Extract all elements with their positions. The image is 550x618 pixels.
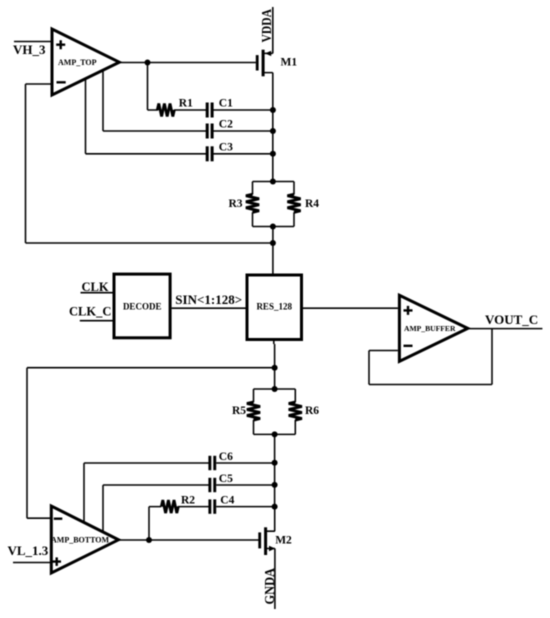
svg-text:C1: C1 [219,98,233,110]
svg-text:AMP_BOTTOM: AMP_BOTTOM [51,536,110,545]
svg-text:R5: R5 [232,405,246,417]
svg-text:M1: M1 [281,57,298,69]
svg-text:C3: C3 [219,142,233,154]
svg-text:CLK: CLK [82,280,109,294]
svg-text:SIN<1:128>: SIN<1:128> [175,292,242,307]
svg-text:CLK_C: CLK_C [69,305,111,319]
svg-text:VH_3: VH_3 [13,42,46,57]
svg-text:R1: R1 [179,98,193,110]
svg-text:C6: C6 [219,451,233,463]
svg-text:VDDA: VDDA [260,8,275,42]
svg-text:AMP_TOP: AMP_TOP [58,58,97,67]
svg-text:M2: M2 [275,535,292,547]
svg-text:C5: C5 [219,473,233,485]
svg-text:R6: R6 [305,405,319,417]
svg-text:R2: R2 [181,495,195,507]
svg-text:RES_128: RES_128 [256,302,292,312]
svg-text:AMP_BUFFER: AMP_BUFFER [404,324,456,333]
svg-text:VOUT_C: VOUT_C [485,312,538,327]
svg-text:VL_1.3: VL_1.3 [8,543,49,558]
svg-text:DECODE: DECODE [123,302,162,312]
svg-text:GNDA: GNDA [263,567,278,604]
svg-text:C4: C4 [220,495,234,507]
svg-text:C2: C2 [219,119,233,131]
svg-text:R3: R3 [229,198,243,210]
svg-text:R4: R4 [305,198,319,210]
